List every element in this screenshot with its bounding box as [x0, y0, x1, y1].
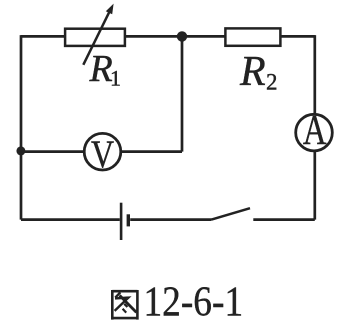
- label R2: [239, 49, 278, 95]
- switch lever: [212, 208, 251, 219]
- voltmeter V: [84, 132, 121, 176]
- wire: R1 to junction node: [124, 35, 182, 38]
- wire: left vertical: [20, 35, 23, 220]
- svg-text:1: 1: [110, 66, 121, 91]
- label R1: [89, 48, 122, 91]
- wire: switch fixed contact to bottom-right corner: [253, 218, 314, 221]
- wire: battery to switch pivot: [130, 218, 211, 221]
- node: left junction (voltmeter branch to left wire): [16, 146, 25, 155]
- battery long plate (positive): [120, 203, 123, 240]
- svg-text:A: A: [303, 107, 327, 154]
- svg-text:V: V: [91, 132, 114, 176]
- caption character 图: [112, 290, 137, 320]
- wire: top-left horizontal segment: [21, 35, 66, 38]
- wire: bottom left (to battery): [21, 218, 120, 221]
- ammeter A: [296, 107, 333, 154]
- rheostat R1 body: [65, 29, 125, 46]
- wire: R2 to top-right corner: [280, 35, 315, 38]
- resistor R2 body: [225, 28, 280, 45]
- node: junction of R1/R2/voltmeter branch: [177, 31, 187, 41]
- wire: middle vertical (node to voltmeter branch): [181, 36, 184, 151]
- wire: junction node to R2: [182, 35, 226, 38]
- rheostat R1 arrow: [83, 4, 113, 65]
- wire: voltmeter branch horizontal: [21, 150, 182, 153]
- svg-text:R: R: [239, 49, 266, 95]
- svg-text:2: 2: [266, 70, 278, 95]
- wire: right vertical (through ammeter): [313, 35, 316, 220]
- battery short plate (negative): [127, 214, 130, 226]
- svg-text:12-6-1: 12-6-1: [144, 278, 244, 321]
